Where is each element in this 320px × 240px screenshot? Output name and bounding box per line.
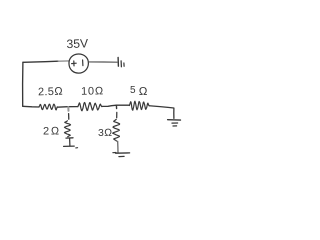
node A stub to 2 ohm (light upper part) [67, 107, 69, 111]
resistor R2 10 ohm zigzag [78, 103, 102, 111]
wire bottom-left to R1 [23, 105, 39, 108]
svg-text:5: 5 [130, 85, 136, 96]
svg-text:10Ω: 10Ω [81, 85, 104, 97]
voltage source plus sign [72, 62, 77, 64]
ground top-right (sideways) tall bar [117, 57, 119, 66]
ground top-right medium bar [120, 61, 122, 67]
svg-text:35V: 35V [66, 36, 89, 51]
resistor R1 2.5 ohm zigzag [39, 104, 57, 110]
ground right : bottom bar [173, 125, 177, 127]
wire left vertical [22, 62, 24, 106]
wire from source right to top ground [89, 61, 117, 63]
wire segment light toward source [58, 60, 69, 62]
ground right : top bar [168, 119, 181, 121]
wire 3 ohm to ground [117, 141, 119, 152]
node B stub down [115, 105, 117, 108]
ground under 3 ohm : left dash [113, 152, 116, 154]
wire right corner down [173, 108, 175, 118]
ground under 2 ohm : top bar [66, 137, 73, 139]
node A stub dark dash [68, 114, 70, 120]
ground top-right small bar [123, 63, 125, 66]
svg-text:2.5Ω: 2.5Ω [38, 86, 64, 99]
wire top-left horizontal from source to left corner [23, 61, 58, 62]
wire R3 to right corner [149, 106, 174, 108]
svg-text:3Ω: 3Ω [98, 127, 113, 139]
voltage source minus bar [82, 60, 84, 66]
svg-text:2Ω: 2Ω [43, 126, 61, 138]
wire R2 to node B [102, 105, 117, 106]
wire node B to R3 [116, 104, 129, 106]
resistor R5 3 ohm vertical squiggle [113, 119, 120, 141]
resistor R4 2 ohm vertical squiggle [65, 121, 71, 137]
resistor R3 5 ohm zigzag [129, 101, 149, 110]
ground under 3 ohm : lower tick [119, 155, 124, 157]
node B dash [116, 112, 118, 117]
ground under 2 ohm : bottom bar [64, 145, 75, 147]
voltage source V1 circle [69, 54, 88, 73]
ground right : middle bar [172, 122, 178, 124]
ground under 2 ohm : small tick [76, 147, 78, 149]
ground under 3 ohm : main bar [116, 152, 130, 154]
ground under 2 ohm : vertical [69, 138, 71, 146]
svg-text:Ω: Ω [139, 86, 148, 98]
wire R1 to R2 with junction [57, 106, 78, 109]
